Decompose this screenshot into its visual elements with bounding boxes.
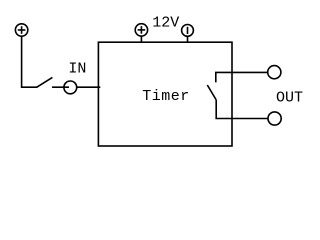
wire from IN node to Timer box bbox=[77, 86, 101, 88]
node OUT bottom terminal bbox=[268, 112, 281, 125]
svg-text:12V: 12V bbox=[152, 14, 179, 31]
battery positive terminal bbox=[15, 24, 27, 36]
switch SW1 blade (IN) bbox=[37, 77, 53, 87]
wire from switch contact to IN node bbox=[52, 86, 69, 88]
node OUT top terminal bbox=[268, 66, 281, 79]
relay contact bottom wire (to OUT bottom) bbox=[216, 100, 268, 119]
svg-text:OUT: OUT bbox=[276, 90, 303, 107]
12V positive supply terminal bbox=[135, 24, 147, 43]
svg-text:IN: IN bbox=[68, 60, 86, 77]
relay contact blade SW2 bbox=[207, 85, 216, 100]
wire from + terminal down to IN switch bbox=[22, 36, 38, 87]
relay contact top wire (to OUT top) bbox=[216, 72, 268, 82]
node IN terminal bbox=[64, 81, 77, 94]
12V return supply terminal bbox=[182, 25, 194, 43]
svg-text:Timer: Timer bbox=[142, 88, 190, 105]
Timer box U1 bbox=[98, 42, 232, 146]
